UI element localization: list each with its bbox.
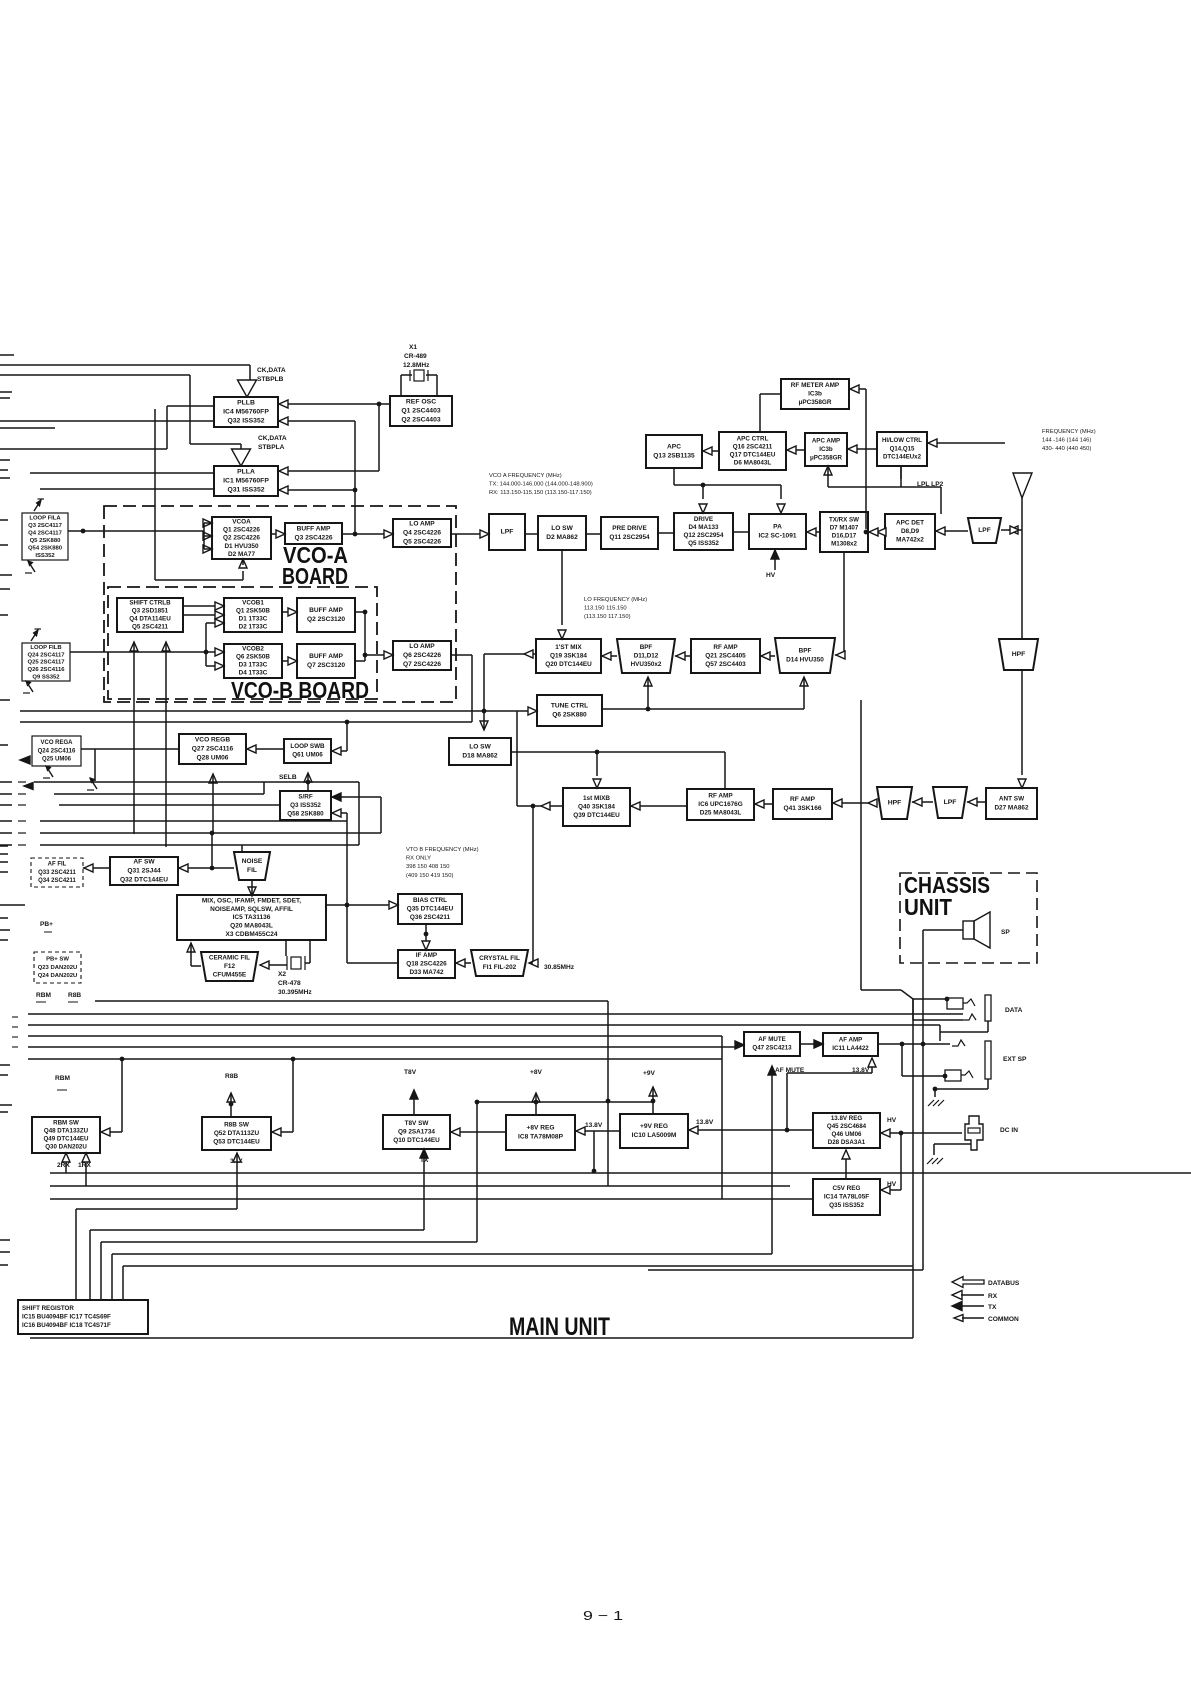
svg-text:Q24 2SC4117: Q24 2SC4117 (27, 652, 65, 658)
svg-text:Q3 2SD1851: Q3 2SD1851 (132, 608, 169, 615)
svg-text:Q28 UM06: Q28 UM06 (197, 754, 229, 761)
svg-text:Q52 DTA113ZU: Q52 DTA113ZU (214, 1130, 260, 1137)
svg-text:X2: X2 (278, 971, 286, 978)
svg-text:DTC144EUx2: DTC144EUx2 (883, 454, 922, 461)
svg-text:RBM: RBM (36, 992, 52, 999)
svg-text:Q6 2SC4226: Q6 2SC4226 (403, 652, 441, 659)
svg-text:VCOB1: VCOB1 (242, 600, 264, 607)
svg-text:D25 MA8043L: D25 MA8043L (700, 810, 742, 817)
svg-text:Q18 2SC4226: Q18 2SC4226 (406, 960, 447, 967)
svg-text:RBM SW: RBM SW (53, 1120, 79, 1127)
svg-text:D11,D12: D11,D12 (634, 652, 659, 659)
svg-text:LOOP FILB: LOOP FILB (30, 645, 61, 651)
svg-text:RX: RX (988, 1293, 998, 1300)
svg-text:RX ONLY: RX ONLY (406, 856, 431, 862)
svg-text:DATA: DATA (1005, 1007, 1023, 1014)
svg-text:LOOP FILA: LOOP FILA (29, 515, 61, 521)
svg-text:Q47 2SC4213: Q47 2SC4213 (752, 1045, 792, 1052)
svg-text:BIAS CTRL: BIAS CTRL (413, 897, 447, 904)
svg-text:ISS352: ISS352 (35, 553, 55, 559)
svg-text:REF OSC: REF OSC (406, 399, 436, 406)
svg-text:TX: TX (988, 1304, 997, 1311)
svg-text:D4 1T33C: D4 1T33C (239, 670, 268, 677)
svg-text:398 150 408 150: 398 150 408 150 (406, 864, 450, 870)
svg-text:Q2 2SC4403: Q2 2SC4403 (401, 417, 441, 424)
svg-text:Q35 ISS352: Q35 ISS352 (829, 1202, 864, 1209)
svg-text:MIX, OSC, IFAMP, FMDET, SDET,: MIX, OSC, IFAMP, FMDET, SDET, (202, 898, 301, 905)
svg-text:CRYSTAL FIL: CRYSTAL FIL (479, 955, 520, 962)
svg-text:Q41 3SK166: Q41 3SK166 (783, 805, 821, 812)
svg-text:Q34 2SC4211: Q34 2SC4211 (38, 878, 76, 884)
svg-text:1RX: 1RX (78, 1162, 91, 1169)
svg-text:VCO A FREQUENCY (MHz): VCO A FREQUENCY (MHz) (489, 473, 562, 479)
svg-text:Q5 2SC4226: Q5 2SC4226 (403, 538, 441, 545)
svg-text:RX: 113.150-115.150 (113.150-1: RX: 113.150-115.150 (113.150-117.150) (489, 490, 592, 496)
svg-text:Q23 DAN202U: Q23 DAN202U (38, 965, 78, 971)
svg-text:9 − 1: 9 − 1 (583, 1608, 623, 1623)
svg-text:Q49 DTC144EU: Q49 DTC144EU (43, 1136, 89, 1143)
svg-text:DRIVE: DRIVE (694, 516, 713, 523)
svg-text:CK,DATA: CK,DATA (258, 435, 287, 442)
svg-text:D2 1T33C: D2 1T33C (239, 624, 268, 631)
svg-text:12.8MHz: 12.8MHz (403, 362, 430, 369)
svg-text:RF AMP: RF AMP (708, 792, 733, 799)
svg-text:BUFF AMP: BUFF AMP (309, 607, 343, 614)
svg-text:IF AMP: IF AMP (416, 952, 438, 959)
svg-text:STBPLB: STBPLB (257, 376, 284, 383)
svg-text:Q9 SS352: Q9 SS352 (32, 674, 60, 680)
svg-text:Q33 2SC4211: Q33 2SC4211 (38, 870, 76, 876)
svg-text:+9V: +9V (643, 1070, 656, 1077)
svg-text:D28 DSA3A1: D28 DSA3A1 (828, 1139, 866, 1146)
svg-text:CR-478: CR-478 (278, 980, 301, 987)
svg-text:LPF: LPF (978, 527, 990, 534)
svg-text:IC8 TA78M08P: IC8 TA78M08P (518, 1133, 564, 1140)
svg-text:D8,D9: D8,D9 (901, 528, 920, 535)
svg-text:NOISE: NOISE (242, 858, 263, 865)
svg-text:Q57 2SC4403: Q57 2SC4403 (705, 661, 746, 668)
svg-text:Q4 2SC4226: Q4 2SC4226 (403, 530, 441, 537)
svg-text:BUFF AMP: BUFF AMP (297, 526, 331, 533)
svg-text:BPF: BPF (799, 648, 812, 655)
svg-text:Q40 3SK184: Q40 3SK184 (578, 803, 615, 810)
svg-text:FREQUENCY (MHz): FREQUENCY (MHz) (1042, 429, 1096, 435)
svg-text:Q24 2SC4116: Q24 2SC4116 (38, 748, 76, 754)
svg-text:Q14,Q15: Q14,Q15 (890, 445, 915, 452)
svg-text:Q2 2SC4226: Q2 2SC4226 (223, 535, 260, 542)
svg-text:COMMON: COMMON (988, 1316, 1019, 1323)
svg-text:Q32 ISS352: Q32 ISS352 (227, 418, 264, 425)
svg-text:+8V REG: +8V REG (526, 1125, 554, 1132)
svg-text:BPF: BPF (640, 644, 653, 651)
svg-text:IC3b: IC3b (819, 446, 833, 453)
svg-text:Q39 DTC144EU: Q39 DTC144EU (573, 812, 620, 819)
svg-text:Q21 2SC4405: Q21 2SC4405 (705, 652, 746, 659)
svg-text:BOARD: BOARD (282, 563, 348, 589)
svg-text:Q31 ISS352: Q31 ISS352 (227, 487, 264, 494)
svg-text:SHIFT CTRLB: SHIFT CTRLB (129, 600, 171, 607)
svg-text:D7 M1407: D7 M1407 (830, 525, 859, 532)
svg-text:Q4 DTA114EU: Q4 DTA114EU (129, 616, 171, 623)
svg-text:HI/LOW CTRL: HI/LOW CTRL (882, 437, 922, 444)
svg-text:D2 MA862: D2 MA862 (546, 534, 578, 541)
svg-text:NOISEAMP, SQLSW, AFFIL: NOISEAMP, SQLSW, AFFIL (210, 906, 293, 913)
svg-text:1'ST MIX: 1'ST MIX (555, 644, 582, 651)
svg-text:D2 MA77: D2 MA77 (228, 551, 255, 558)
svg-text:PLLA: PLLA (237, 469, 255, 476)
svg-text:144 -146 (144 146): 144 -146 (144 146) (1042, 438, 1091, 444)
svg-text:13.8V REG: 13.8V REG (831, 1115, 862, 1122)
svg-text:CERAMIC FIL: CERAMIC FIL (209, 954, 250, 961)
svg-text:PB+ SW: PB+ SW (46, 957, 69, 963)
svg-text:D33 MA742: D33 MA742 (409, 969, 444, 976)
svg-text:Q10 DTC144EU: Q10 DTC144EU (393, 1137, 440, 1144)
svg-text:+8V: +8V (530, 1069, 543, 1076)
svg-text:TX/RX SW: TX/RX SW (829, 517, 859, 524)
svg-text:Q32 DTC144EU: Q32 DTC144EU (120, 876, 168, 883)
svg-text:Q31 2SJ44: Q31 2SJ44 (127, 868, 161, 875)
svg-text:Q4 2SC4117: Q4 2SC4117 (28, 530, 62, 536)
svg-text:F12: F12 (224, 963, 235, 970)
svg-text:μPC358GR: μPC358GR (810, 454, 843, 461)
svg-text:EXT SP: EXT SP (1003, 1056, 1027, 1063)
svg-text:DATABUS: DATABUS (988, 1280, 1020, 1287)
svg-text:Q20 MA8043L: Q20 MA8043L (230, 923, 273, 930)
svg-text:Q3 2SC4117: Q3 2SC4117 (28, 523, 62, 529)
svg-text:Q5 2SK880: Q5 2SK880 (30, 538, 62, 544)
svg-text:PLLB: PLLB (237, 400, 255, 407)
svg-text:BUFF AMP: BUFF AMP (309, 653, 343, 660)
svg-text:Q11 2SC2954: Q11 2SC2954 (609, 534, 650, 541)
svg-text:RF METER AMP: RF METER AMP (791, 382, 840, 389)
svg-text:Q46 UM06: Q46 UM06 (832, 1131, 862, 1138)
svg-text:C5V REG: C5V REG (832, 1185, 860, 1192)
svg-text:Q13 2SB1135: Q13 2SB1135 (653, 452, 695, 459)
svg-text:HV: HV (887, 1117, 897, 1124)
svg-text:HPF: HPF (888, 800, 902, 807)
svg-text:Q25 2SC4117: Q25 2SC4117 (27, 660, 65, 666)
svg-text:TX: 144.000-146.000 (144.000-1: TX: 144.000-146.000 (144.000-148.900) (489, 482, 593, 488)
svg-text:IC11 LA4422: IC11 LA4422 (832, 1045, 869, 1052)
svg-text:2RX: 2RX (57, 1162, 70, 1169)
svg-text:X3 CDBM455C24: X3 CDBM455C24 (225, 931, 277, 938)
svg-text:Q26 2SC4116: Q26 2SC4116 (27, 667, 65, 673)
svg-text:Q36 2SC4211: Q36 2SC4211 (410, 914, 451, 921)
svg-text:Q3 2SC4226: Q3 2SC4226 (294, 534, 332, 541)
svg-text:APC AMP: APC AMP (812, 437, 840, 444)
svg-text:FI1 FIL-202: FI1 FIL-202 (483, 964, 517, 971)
svg-text:HPF: HPF (1012, 651, 1026, 658)
svg-text:M1308x2: M1308x2 (831, 541, 857, 548)
svg-text:1st MIXB: 1st MIXB (583, 795, 610, 802)
svg-text:PRE DRIVE: PRE DRIVE (612, 525, 647, 532)
svg-text:IC3b: IC3b (808, 390, 822, 397)
svg-text:IC6 UPC1676G: IC6 UPC1676G (698, 801, 742, 808)
svg-text:Q53 DTC144EU: Q53 DTC144EU (213, 1139, 260, 1146)
svg-text:MAIN UNIT: MAIN UNIT (509, 1313, 610, 1341)
svg-text:VCO-B BOARD: VCO-B BOARD (231, 677, 369, 703)
svg-text:30.395MHz: 30.395MHz (278, 989, 312, 996)
svg-text:UNIT: UNIT (904, 894, 952, 920)
svg-text:Q7 2SC3120: Q7 2SC3120 (307, 662, 345, 669)
svg-text:+9V REG: +9V REG (640, 1123, 668, 1130)
svg-text:Q54 2SK880: Q54 2SK880 (28, 545, 63, 551)
svg-text:DC IN: DC IN (1000, 1127, 1018, 1134)
svg-text:VCO REGB: VCO REGB (195, 737, 230, 744)
svg-text:SP: SP (1001, 929, 1010, 936)
svg-text:Q3 ISS352: Q3 ISS352 (290, 802, 321, 809)
svg-text:(409 150 419 150): (409 150 419 150) (406, 873, 453, 879)
svg-text:Q24 DAN202U: Q24 DAN202U (38, 973, 78, 979)
svg-text:APC: APC (667, 444, 681, 451)
svg-text:LPF: LPF (944, 799, 957, 806)
svg-text:IC4 M56760FP: IC4 M56760FP (223, 409, 269, 416)
svg-text:Q20 DTC144EU: Q20 DTC144EU (545, 661, 592, 668)
svg-text:Q61 UM06: Q61 UM06 (292, 752, 323, 759)
svg-text:PA: PA (773, 524, 782, 531)
svg-text:SHIFT REGISTOR: SHIFT REGISTOR (22, 1305, 74, 1312)
svg-text:D27 MA862: D27 MA862 (994, 804, 1029, 811)
svg-text:Q12 2SC2954: Q12 2SC2954 (684, 532, 724, 539)
svg-text:STBPLA: STBPLA (258, 444, 285, 451)
svg-text:(113.150 117.150): (113.150 117.150) (584, 614, 631, 620)
svg-text:VCO REGA: VCO REGA (40, 740, 73, 746)
svg-text:Q6 2SK880: Q6 2SK880 (552, 711, 587, 718)
svg-text:D4 MA133: D4 MA133 (688, 524, 719, 531)
svg-text:HVU350x2: HVU350x2 (631, 661, 662, 668)
svg-text:Q30 DAN202U: Q30 DAN202U (45, 1144, 87, 1151)
svg-text:VCOA: VCOA (232, 518, 251, 525)
svg-text:Q35 DTC144EU: Q35 DTC144EU (407, 905, 454, 912)
svg-text:IC1 M56760FP: IC1 M56760FP (223, 478, 269, 485)
svg-text:D3 1T33C: D3 1T33C (239, 662, 268, 669)
svg-text:Q25 UM06: Q25 UM06 (42, 757, 72, 763)
svg-text:D16,D17: D16,D17 (832, 533, 857, 540)
svg-text:Q6 2SK50B: Q6 2SK50B (236, 654, 270, 661)
svg-text:AF MUTE: AF MUTE (758, 1036, 786, 1043)
svg-text:Q1 2SK50B: Q1 2SK50B (236, 608, 270, 615)
svg-text:CK,DATA: CK,DATA (257, 367, 286, 374)
svg-text:TUNE CTRL: TUNE CTRL (551, 703, 588, 710)
svg-text:113.150 115.150: 113.150 115.150 (584, 606, 627, 612)
svg-text:IC5 TA31136: IC5 TA31136 (233, 914, 271, 921)
svg-text:IC14 TA78L05F: IC14 TA78L05F (824, 1193, 869, 1200)
svg-text:D6 MA8043L: D6 MA8043L (734, 460, 772, 467)
svg-text:X1: X1 (409, 344, 417, 351)
svg-text:LO AMP: LO AMP (409, 521, 435, 528)
svg-text:AF FIL: AF FIL (48, 862, 67, 868)
svg-text:μPC358GR: μPC358GR (798, 399, 831, 406)
svg-text:PB+: PB+ (40, 921, 53, 928)
svg-text:LOOP SWB: LOOP SWB (290, 743, 325, 750)
svg-text:SELB: SELB (279, 774, 297, 781)
svg-text:Q19 3SK184: Q19 3SK184 (550, 652, 587, 659)
svg-text:LO SW: LO SW (551, 525, 573, 532)
svg-text:Q5 2SC4211: Q5 2SC4211 (132, 624, 169, 631)
svg-text:30.85MHz: 30.85MHz (544, 964, 575, 971)
svg-text:Q2 2SC3120: Q2 2SC3120 (307, 616, 345, 623)
svg-text:Q45 2SC4684: Q45 2SC4684 (827, 1123, 867, 1130)
svg-text:LO AMP: LO AMP (409, 643, 435, 650)
svg-text:Q1 2SC4226: Q1 2SC4226 (223, 526, 260, 533)
svg-text:APC DET: APC DET (896, 519, 924, 526)
svg-text:VTO B FREQUENCY (MHz): VTO B FREQUENCY (MHz) (406, 847, 479, 853)
svg-text:D14 HVU350: D14 HVU350 (786, 656, 824, 663)
svg-text:D18 MA862: D18 MA862 (462, 752, 498, 759)
svg-text:D1 HVU350: D1 HVU350 (224, 543, 259, 550)
svg-text:R8B: R8B (225, 1073, 238, 1080)
svg-text:S/RF: S/RF (298, 793, 312, 800)
svg-text:IC16 BU4094BF IC18 TC4S71F: IC16 BU4094BF IC18 TC4S71F (22, 1322, 111, 1329)
svg-text:Q1 2SC4403: Q1 2SC4403 (401, 408, 441, 415)
svg-text:Q16 2SC4211: Q16 2SC4211 (733, 444, 773, 451)
svg-text:T8V SW: T8V SW (405, 1120, 430, 1127)
svg-text:MA742x2: MA742x2 (896, 537, 924, 544)
svg-text:D1 1T33C: D1 1T33C (239, 616, 268, 623)
svg-text:IC10 LA5009M: IC10 LA5009M (632, 1132, 677, 1139)
svg-text:R8B SW: R8B SW (224, 1121, 250, 1128)
svg-text:CFUM455E: CFUM455E (213, 972, 247, 979)
svg-text:VCOB2: VCOB2 (242, 646, 264, 653)
svg-text:R8B: R8B (68, 992, 81, 999)
svg-text:HV: HV (766, 572, 776, 579)
svg-text:IC15 BU4094BF IC17 TC4S69F: IC15 BU4094BF IC17 TC4S69F (22, 1313, 111, 1320)
svg-text:Q58 2SK880: Q58 2SK880 (287, 810, 324, 817)
svg-text:CR-489: CR-489 (404, 353, 427, 360)
svg-text:Q27 2SC4116: Q27 2SC4116 (192, 746, 234, 753)
svg-text:AF SW: AF SW (133, 859, 155, 866)
svg-text:AF AMP: AF AMP (839, 1037, 863, 1044)
svg-text:LO FREQUENCY (MHz): LO FREQUENCY (MHz) (584, 597, 647, 603)
svg-text:Q7 2SC4226: Q7 2SC4226 (403, 661, 441, 668)
svg-text:RF AMP: RF AMP (790, 796, 816, 803)
svg-text:ANT SW: ANT SW (999, 796, 1025, 803)
svg-text:Q17 DTC144EU: Q17 DTC144EU (730, 452, 776, 459)
svg-text:Q9 2SA1734: Q9 2SA1734 (398, 1128, 435, 1135)
svg-text:LO SW: LO SW (469, 744, 491, 751)
svg-text:FIL: FIL (247, 867, 257, 874)
svg-text:T8V: T8V (404, 1069, 417, 1076)
svg-text:APC CTRL: APC CTRL (737, 436, 769, 443)
svg-text:RF AMP: RF AMP (713, 644, 738, 651)
svg-text:LPF: LPF (501, 529, 514, 536)
svg-text:IC2 SC-1091: IC2 SC-1091 (758, 532, 796, 539)
svg-text:RBM: RBM (55, 1075, 71, 1082)
svg-text:430- 440 (440 450): 430- 440 (440 450) (1042, 446, 1091, 452)
svg-text:Q48 DTA133ZU: Q48 DTA133ZU (44, 1128, 89, 1135)
svg-text:Q5 ISS352: Q5 ISS352 (688, 540, 719, 547)
svg-text:13.8V: 13.8V (585, 1122, 603, 1129)
